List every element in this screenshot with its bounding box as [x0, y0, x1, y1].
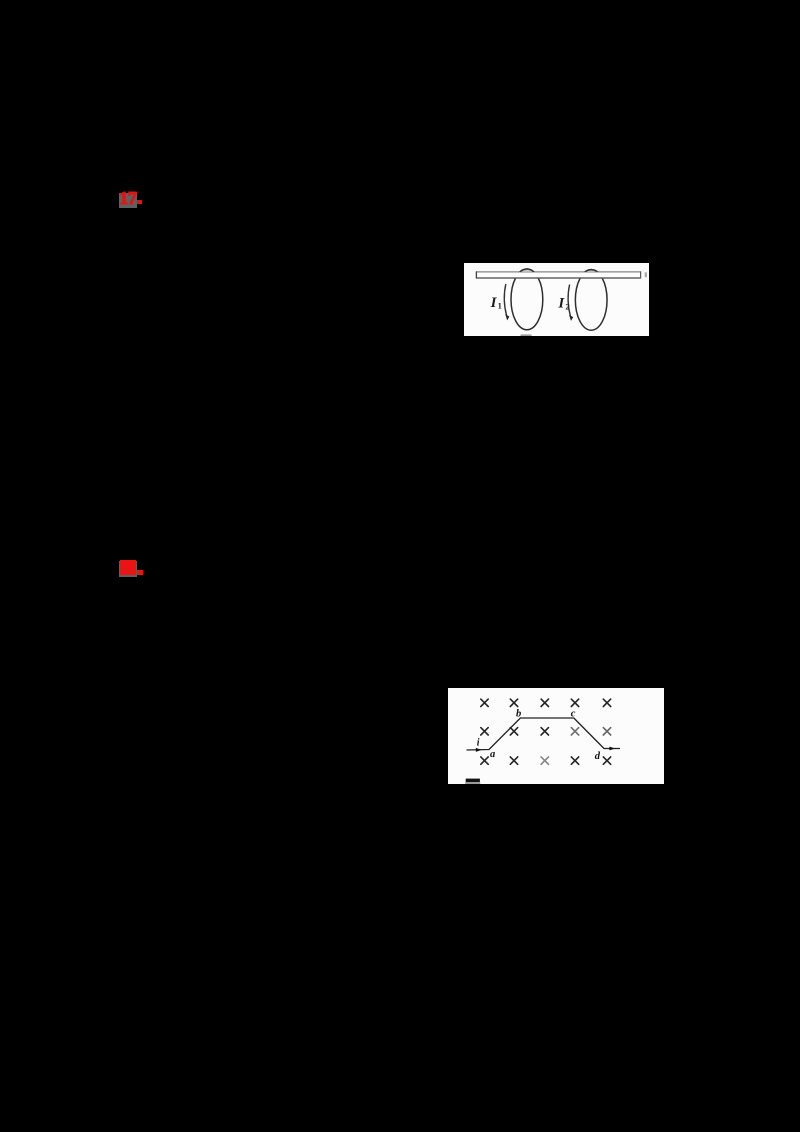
- svg-text:1: 1: [498, 300, 502, 310]
- rod top edge: [476, 271, 641, 273]
- field x marks row 2: [481, 728, 611, 735]
- svg-text:i: i: [477, 737, 480, 748]
- panel background: [448, 688, 664, 784]
- svg-text:a: a: [490, 749, 495, 760]
- svg-text:c: c: [571, 708, 576, 719]
- loop I2 ellipse: [575, 270, 607, 331]
- field x marks row 3: [481, 757, 611, 764]
- figure 2: trapezoid wire in magnetic field region: [448, 688, 664, 784]
- bottom gray smudge: [521, 334, 532, 336]
- svg-text:2: 2: [565, 301, 569, 311]
- figure 1: rod with two hanging current loops: [464, 263, 649, 336]
- problem number 18 block: [120, 560, 136, 576]
- svg-text:I: I: [490, 295, 498, 311]
- svg-text:b: b: [516, 708, 521, 719]
- current arrow for I1: [504, 284, 506, 316]
- field x marks row 1: [481, 699, 611, 706]
- svg-text:d: d: [595, 751, 601, 762]
- problem number 17 period: [137, 200, 142, 204]
- loop I1 ellipse: [511, 269, 543, 330]
- bottom-left black dash: [466, 779, 480, 782]
- problem number 17 highlight box: [119, 193, 137, 208]
- problem number 18 period: [137, 570, 143, 575]
- svg-text:I: I: [557, 296, 565, 312]
- problem number 17: [119, 192, 145, 208]
- bottom-left gray strip: [465, 782, 480, 784]
- wire path a-b-c-d: [467, 718, 621, 750]
- rod right end: [640, 271, 642, 278]
- loop I1 cap above rod: [511, 269, 543, 330]
- loop I2 cap above rod: [575, 270, 607, 331]
- entry current arrowhead: [476, 748, 482, 752]
- exit current arrowhead: [609, 747, 615, 751]
- rod body: [476, 271, 641, 278]
- problem number 18 highlight box: [119, 561, 137, 577]
- rod bottom edge: [476, 277, 641, 279]
- current arrow for I2: [568, 285, 570, 317]
- panel background: [464, 263, 649, 336]
- rod left end: [475, 271, 477, 278]
- rod right gray tick: [645, 272, 647, 277]
